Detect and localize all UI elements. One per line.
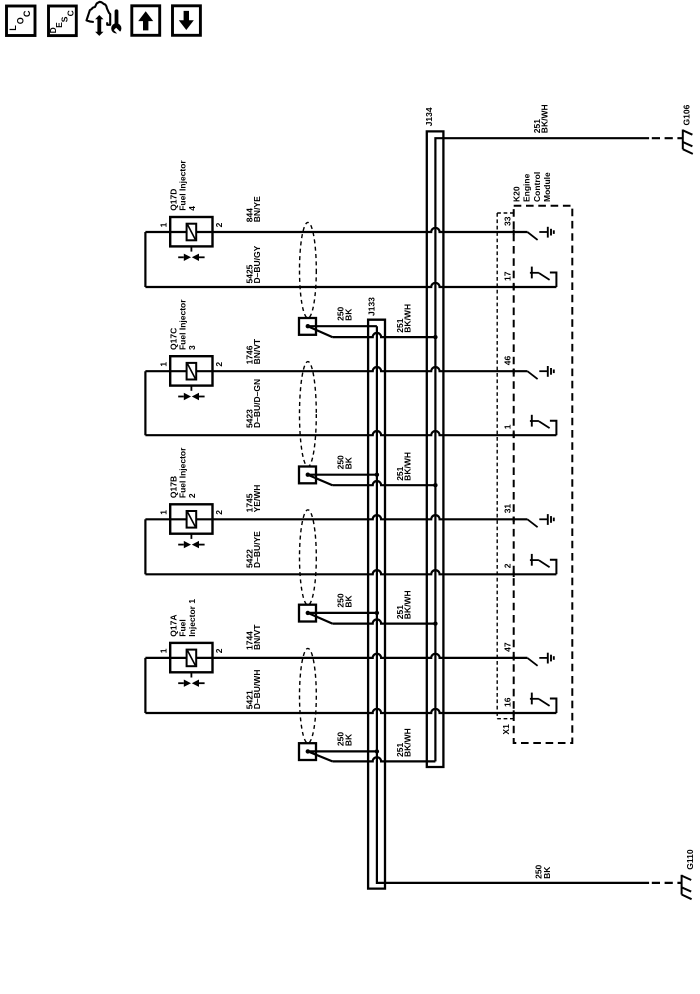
svg-text:1: 1 bbox=[158, 648, 168, 653]
svg-text:YE/WH: YE/WH bbox=[252, 485, 262, 513]
junction block J133 bbox=[368, 320, 385, 889]
svg-text:O: O bbox=[15, 17, 25, 24]
junction block J134 bbox=[427, 131, 444, 767]
wire 250 BK bus inside J133 bbox=[377, 326, 649, 883]
fuel injector Q17C bbox=[170, 356, 212, 400]
fuel injector Q17A bbox=[170, 643, 212, 687]
svg-text:2: 2 bbox=[502, 563, 512, 568]
pin 2 of Q17D bbox=[214, 222, 224, 227]
svg-text:Control: Control bbox=[532, 172, 542, 202]
label circuit 1745 YE/WH bbox=[245, 485, 263, 513]
toolbar button LOC bbox=[7, 6, 36, 36]
svg-text:1: 1 bbox=[158, 222, 168, 227]
label 251 BK/WH (S3) bbox=[395, 590, 413, 619]
wire 251 BK/WH from splice S3 to J134 bbox=[308, 613, 436, 624]
ECM pin 17 label bbox=[502, 271, 512, 281]
label 251 BK/WH (to G106) bbox=[532, 104, 550, 133]
splice S4 bbox=[299, 743, 316, 760]
pin 1 of Q17B bbox=[158, 510, 168, 515]
pin 2 of Q17C bbox=[214, 362, 224, 367]
svg-text:31: 31 bbox=[502, 504, 512, 514]
svg-text:L: L bbox=[8, 25, 18, 31]
toolbar button DESC bbox=[48, 6, 76, 36]
svg-text:K20: K20 bbox=[512, 186, 522, 202]
junction on J133 bus bbox=[375, 473, 379, 477]
wire control circuit 1745 of Q17B bbox=[145, 515, 527, 519]
ground G106 bbox=[683, 130, 693, 154]
harness ellipse of Q17B pair bbox=[300, 510, 317, 605]
svg-text:BN/VT: BN/VT bbox=[252, 338, 262, 364]
pin 1 of Q17A bbox=[158, 648, 168, 653]
svg-text:17: 17 bbox=[502, 271, 512, 281]
ECM internal driver output at pin 17 bbox=[530, 267, 557, 287]
wire 250 BK from splice S1 to J133 bbox=[308, 325, 377, 327]
wire circuit 5422 of Q17B bbox=[145, 570, 556, 574]
junction on J134 bus bbox=[433, 335, 437, 339]
toolbar icon vehicle with up/down arrow and wrench bbox=[87, 2, 122, 36]
label circuit 1744 BN/VT bbox=[245, 624, 263, 650]
wire 251 BK/WH from splice S1 to J134 bbox=[308, 326, 436, 337]
svg-text:D–BU/D–GN: D–BU/D–GN bbox=[252, 379, 262, 428]
label 251 BK/WH (S4) bbox=[395, 728, 413, 757]
label of Q17D bbox=[168, 160, 197, 211]
ECM pin 16 label bbox=[502, 697, 512, 707]
svg-text:2: 2 bbox=[214, 510, 224, 515]
svg-text:BK/WH: BK/WH bbox=[540, 104, 550, 133]
harness ellipse of Q17C pair bbox=[300, 362, 317, 467]
wire circuit 5425 of Q17D bbox=[145, 283, 556, 287]
svg-text:BK: BK bbox=[343, 456, 353, 469]
ECM internal switch-to-ground at pin 47 bbox=[527, 653, 553, 666]
label of Q17B bbox=[168, 447, 197, 498]
ECM pin 47 terminal tick bbox=[513, 655, 515, 660]
label K20 Engine Control Module bbox=[512, 172, 552, 202]
svg-text:2: 2 bbox=[214, 362, 224, 367]
svg-text:Fuel Injector: Fuel Injector bbox=[178, 447, 188, 498]
label of Q17C bbox=[168, 299, 197, 350]
ECM pin 1 terminal tick bbox=[513, 433, 515, 438]
svg-text:1: 1 bbox=[502, 424, 512, 429]
ECM pin 46 label bbox=[502, 355, 512, 365]
pin 1 of Q17D bbox=[158, 222, 168, 227]
svg-text:X1: X1 bbox=[501, 724, 511, 735]
ECM pin 17 terminal tick bbox=[513, 284, 515, 289]
svg-text:16: 16 bbox=[502, 697, 512, 707]
ECM pin 16 terminal tick bbox=[513, 710, 515, 715]
dashed wire to G110 bbox=[652, 882, 682, 884]
label of Q17A bbox=[168, 599, 197, 637]
svg-text:46: 46 bbox=[502, 355, 512, 365]
label X1 bbox=[501, 724, 511, 735]
junction on J133 bus bbox=[375, 611, 379, 615]
wire circuit 5423 of Q17C bbox=[145, 431, 556, 435]
ECM K20 dashed box bbox=[514, 206, 573, 743]
svg-text:3: 3 bbox=[187, 345, 197, 350]
pin 1 of Q17C bbox=[158, 362, 168, 367]
label G110 bbox=[685, 849, 695, 870]
ECM pin 31 terminal tick bbox=[513, 517, 515, 522]
svg-text:BK/WH: BK/WH bbox=[403, 304, 413, 333]
harness ellipse of Q17D pair bbox=[300, 222, 317, 318]
svg-text:47: 47 bbox=[502, 642, 512, 652]
svg-text:1: 1 bbox=[158, 362, 168, 367]
toolbar button down arrow bbox=[173, 6, 201, 36]
junction on J133 bus bbox=[375, 749, 379, 753]
ECM pin 33 terminal tick bbox=[513, 229, 515, 234]
label G106 bbox=[681, 104, 691, 125]
label circuit 5423 D&#8211;BU/D&#8211;GN bbox=[245, 379, 263, 428]
svg-text:J134: J134 bbox=[424, 107, 434, 126]
wire control circuit 844 of Q17D bbox=[145, 228, 527, 232]
svg-text:BK/WH: BK/WH bbox=[403, 590, 413, 619]
wire ground-side loop of Q17B bbox=[144, 519, 146, 574]
ECM internal driver output at pin 1 bbox=[530, 415, 557, 435]
wire 250 BK from splice S3 to J133 bbox=[308, 612, 377, 614]
wire ground-side loop of Q17A bbox=[144, 658, 146, 713]
junction on J134 bus bbox=[433, 483, 437, 487]
label circuit 5421 D&#8211;BU/WH bbox=[245, 670, 263, 710]
svg-text:33: 33 bbox=[502, 216, 512, 226]
svg-text:J133: J133 bbox=[367, 297, 377, 316]
ECM pin 47 label bbox=[502, 642, 512, 652]
ECM internal switch-to-ground at pin 46 bbox=[527, 366, 553, 379]
svg-text:Injector 1: Injector 1 bbox=[187, 599, 197, 637]
svg-text:BN/VT: BN/VT bbox=[252, 624, 262, 650]
ECM internal switch-to-ground at pin 31 bbox=[527, 514, 553, 527]
ECM pin 33 label bbox=[502, 216, 512, 226]
svg-text:Engine: Engine bbox=[522, 173, 532, 202]
svg-text:1: 1 bbox=[158, 510, 168, 515]
svg-text:BK/WH: BK/WH bbox=[403, 728, 413, 757]
label 250 BK (S2) bbox=[336, 455, 354, 469]
toolbar button up arrow bbox=[132, 6, 160, 36]
wire 251 BK/WH from splice S4 to J134 bbox=[308, 751, 436, 761]
svg-text:D–BU/GY: D–BU/GY bbox=[252, 245, 262, 283]
svg-text:BK: BK bbox=[343, 594, 353, 607]
ECM internal driver output at pin 16 bbox=[530, 693, 557, 713]
ECM pin 31 label bbox=[502, 504, 512, 514]
pin 2 of Q17A bbox=[214, 648, 224, 653]
wire circuit 5421 of Q17A bbox=[145, 709, 556, 713]
svg-text:C: C bbox=[22, 10, 32, 17]
pin 2 of Q17B bbox=[214, 510, 224, 515]
svg-text:BK: BK bbox=[343, 308, 353, 321]
splice S1 bbox=[299, 318, 316, 335]
svg-text:Module: Module bbox=[542, 172, 552, 202]
label 250 BK (S1) bbox=[336, 306, 354, 320]
wire 250 BK from splice S2 to J133 bbox=[308, 474, 377, 476]
label 251 BK/WH (S2) bbox=[395, 452, 413, 481]
harness ellipse of Q17A pair bbox=[300, 648, 317, 743]
ECM pin 2 terminal tick bbox=[513, 572, 515, 577]
label circuit 844 BN/YE bbox=[245, 196, 263, 222]
wire 251 BK/WH from splice S2 to J134 bbox=[308, 475, 436, 486]
svg-text:2: 2 bbox=[214, 648, 224, 653]
wire 250 BK from splice S4 to J133 bbox=[308, 750, 377, 752]
svg-text:C: C bbox=[66, 10, 76, 16]
svg-text:4: 4 bbox=[187, 206, 197, 211]
ground G110 bbox=[682, 875, 692, 899]
label circuit 1746 BN/VT bbox=[245, 338, 263, 364]
ECM pin 1 label bbox=[502, 424, 512, 429]
label 250 BK (S4) bbox=[336, 732, 354, 746]
junction on J134 bus bbox=[433, 621, 437, 625]
label J134 bbox=[424, 107, 434, 126]
splice S3 bbox=[299, 605, 316, 622]
svg-text:D–BU/WH: D–BU/WH bbox=[252, 670, 262, 710]
ECM pin 46 terminal tick bbox=[513, 369, 515, 374]
svg-text:BN/YE: BN/YE bbox=[252, 196, 262, 222]
svg-text:2: 2 bbox=[214, 222, 224, 227]
label J133 bbox=[367, 297, 377, 316]
fuel injector Q17D bbox=[170, 217, 212, 261]
label 250 BK (S3) bbox=[336, 593, 354, 607]
svg-text:Fuel Injector: Fuel Injector bbox=[178, 299, 188, 350]
wire ground-side loop of Q17C bbox=[144, 371, 146, 435]
wire ground-side loop of Q17D bbox=[144, 232, 146, 287]
svg-text:G110: G110 bbox=[685, 849, 695, 870]
svg-text:BK: BK bbox=[343, 733, 353, 746]
label circuit 5422 D&#8211;BU/YE bbox=[245, 531, 263, 568]
svg-text:Fuel Injector: Fuel Injector bbox=[178, 160, 188, 211]
connector X1 dashed boundary bbox=[497, 213, 514, 719]
dashed wire to G106 bbox=[652, 137, 682, 139]
label circuit 5425 D&#8211;BU/GY bbox=[245, 245, 263, 283]
wire control circuit 1746 of Q17C bbox=[145, 367, 527, 371]
ECM internal switch-to-ground at pin 33 bbox=[527, 227, 553, 240]
svg-text:BK: BK bbox=[542, 866, 552, 879]
wire control circuit 1744 of Q17A bbox=[145, 654, 527, 658]
fuel injector Q17B bbox=[170, 504, 212, 548]
wire 251 BK/WH bus inside J134 bbox=[435, 138, 649, 761]
label 251 BK/WH (S1) bbox=[395, 304, 413, 333]
svg-text:2: 2 bbox=[187, 493, 197, 498]
svg-text:D–BU/YE: D–BU/YE bbox=[252, 531, 262, 568]
label 250 BK (to G110) bbox=[534, 864, 552, 878]
svg-text:G106: G106 bbox=[681, 104, 691, 125]
ECM pin 2 label bbox=[502, 563, 512, 568]
ECM internal driver output at pin 2 bbox=[530, 554, 557, 574]
svg-text:BK/WH: BK/WH bbox=[403, 452, 413, 481]
splice S2 bbox=[299, 467, 316, 484]
